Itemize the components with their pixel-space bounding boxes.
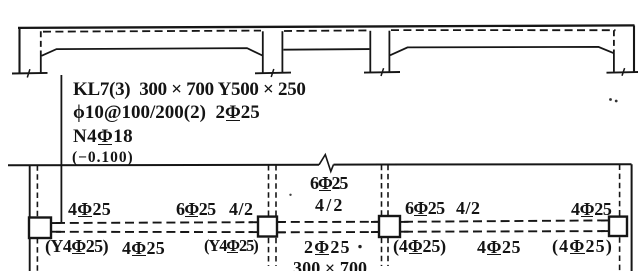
span2 soffit [283,48,369,51]
span2 beam top edge stubs [277,221,286,223]
column 4 inner face dashed [613,30,615,52]
support 4 tick [622,68,625,76]
support 1 tick [27,69,30,77]
span1 beam top edge stubs [51,222,61,224]
span3 top rebar dashed line [391,29,616,31]
span3 right top bars label [571,200,612,218]
span2 top bars label line2 [315,196,345,214]
col2 crossing beam edge dashed A [268,165,270,266]
col3 crossing beam edge dashed B [387,165,389,266]
column 2 left face [262,31,264,73]
span3 beam bottom edge stubs [400,231,409,233]
span3 beam top edge stubs [400,221,409,223]
support 4 [607,71,639,74]
slab edge line (plan, right of break) [334,163,632,165]
left column outer face [18,27,20,74]
col3 crossing beam edge dashed A [381,165,383,266]
span1 right haunch bars label [204,238,258,255]
span3 left haunch bars label [393,237,446,255]
scan dot 1 [609,98,612,101]
beam title text line 3: side bars [73,127,133,146]
span2 top bars label line1 [310,174,347,192]
support 2 [255,72,291,75]
column 4 inner face solid [613,53,615,72]
beam top chord (elevation) [18,25,635,28]
slab edge line (plan, left of break) [8,164,319,167]
span1 beam bottom edge dashed [56,231,253,233]
break mark [319,155,334,172]
left column inner face (dashed above soffit) [40,31,42,56]
span1 bottom bars label [122,239,165,257]
span1 left haunch bars label [45,237,108,255]
dot after 2phi25 [358,245,361,248]
column square 4 [609,217,627,236]
span1 beam top edge dashed [56,221,253,224]
span1 right top bars label part1 [176,200,216,218]
right wall edge solid [631,164,633,271]
span2 beam bottom edge stubs [277,231,286,233]
span3 beam top edge dashed [404,220,605,221]
scan dot 3 [289,194,291,196]
left column inner face (solid below) [40,57,42,74]
span2 beam bottom edge dashed [277,231,379,233]
span2 section size label [293,259,367,271]
span2 beam top edge dashed [277,221,379,223]
column 3 right face [388,31,390,72]
span1 beam bottom edge stubs [51,231,62,233]
span2 bottom bars label [304,238,351,256]
support 2 tick [271,69,274,77]
span3 left top bars label part2 [456,199,481,217]
column 2 right face [281,31,283,73]
right column outer face [633,26,635,72]
span3 left top bars label part1 [405,199,445,217]
support 3 tick [381,68,384,76]
annotation leader line [60,75,62,224]
column 1 grid solid vertical [29,165,31,271]
span3 beam bottom edge dashed [404,230,605,233]
beam title text line 2: stirrups and top bars [73,103,260,122]
scan dot 2 [615,100,618,103]
support 1 [12,72,48,75]
support 3 [364,71,400,74]
column square 2 [258,217,277,237]
col4 centerline dashed [619,165,621,271]
span2 top rebar dashed line [284,29,369,32]
span1 right top bars label part2 [229,200,254,218]
column square 3 [379,216,400,237]
column 1 centerline dashed [36,165,38,271]
column square 1 [29,218,51,239]
span1 soffit (haunched) [42,48,263,56]
span3 soffit (haunched) [390,47,614,55]
span3 bottom bars label [477,238,521,256]
span1 top rebar dashed line [43,31,261,32]
span3 right haunch bars label [552,237,613,255]
column 3 left face [369,31,371,73]
beam title text line 4: level [72,150,134,166]
beam title text line 1 [73,80,306,99]
col2 crossing beam edge dashed B [275,165,277,266]
span1 left top bars label [68,200,111,218]
